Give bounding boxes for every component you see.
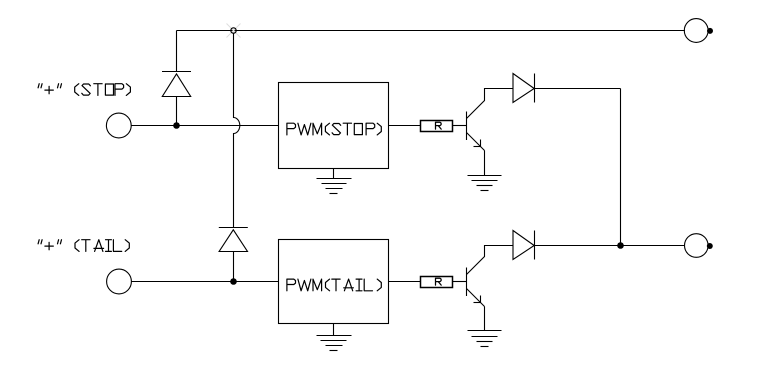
transistor Q2 base bar bbox=[466, 268, 468, 297]
ground for U2 bbox=[333, 324, 335, 336]
diode D3 bbox=[513, 74, 534, 103]
wire Q2 emitter to ground bbox=[484, 307, 486, 331]
ground for Q2 bbox=[468, 330, 502, 332]
diode D2 anode lead bbox=[233, 252, 235, 282]
transistor Q2 emitter bbox=[467, 289, 485, 307]
diode D1 bbox=[162, 74, 190, 97]
output terminal (bottom, lamp) bbox=[685, 234, 709, 258]
contact dot on bottom output terminal bbox=[707, 243, 713, 249]
label PWM(TAIL) bbox=[287, 279, 381, 291]
wire D4 cathode to output terminal bbox=[535, 245, 686, 247]
wire node B down to D2 cathode (with hop) bbox=[234, 33, 240, 227]
wire U2 output to R2 bbox=[389, 281, 421, 283]
wire R1 to Q1 base bbox=[453, 125, 467, 127]
diode D4 bbox=[513, 231, 534, 260]
wire D3 cathode to right drop bbox=[535, 88, 621, 90]
wire U1 output to R1 bbox=[389, 125, 421, 127]
transistor Q2 collector bbox=[467, 246, 514, 275]
wire right drop (D3 to node C) bbox=[620, 89, 622, 246]
wire J2 to PWM(TAIL) input bbox=[131, 281, 278, 283]
junction node C (D3/D4 outputs join) bbox=[617, 242, 624, 249]
wire D1 cathode to top rail bbox=[176, 31, 178, 72]
top rail (common cathode net) bbox=[177, 30, 686, 32]
output terminal (top, STOP common) bbox=[684, 19, 708, 43]
junction node B (open circle on top rail) bbox=[231, 28, 236, 33]
wire R2 to Q2 base bbox=[453, 281, 467, 283]
input terminal J2 (TAIL) bbox=[107, 269, 132, 294]
label PWM(STOP) bbox=[287, 123, 381, 135]
transistor Q1 emitter bbox=[467, 133, 485, 151]
point marker X at node B bbox=[227, 24, 241, 38]
wire Q1 emitter to ground bbox=[484, 151, 486, 176]
ground for U1 bbox=[333, 169, 335, 179]
PWM(TAIL) module U2 bbox=[279, 240, 389, 324]
junction node D (TAIL rail / D2 anode) bbox=[230, 278, 237, 285]
input terminal J1 (STOP) bbox=[106, 113, 131, 138]
PWM(STOP) module U1 bbox=[279, 83, 389, 169]
transistor Q1 base bar bbox=[466, 112, 468, 141]
resistor R1 bbox=[421, 121, 453, 132]
wire J1 to PWM(STOP) input bbox=[131, 125, 278, 127]
resistor R2 bbox=[421, 277, 453, 288]
junction node A (STOP rail / D1 anode) bbox=[173, 122, 180, 129]
ground for Q1 bbox=[468, 175, 502, 177]
label "+" (TAIL) bbox=[38, 240, 129, 252]
diode D1 anode lead bbox=[176, 97, 178, 126]
transistor Q1 collector bbox=[467, 89, 514, 119]
label R (R2 value) bbox=[436, 278, 442, 285]
contact dot on top output terminal bbox=[707, 28, 713, 34]
label R (R1 value) bbox=[436, 122, 442, 129]
label "+" (STOP) bbox=[38, 84, 130, 96]
diode D2 bbox=[219, 227, 248, 229]
